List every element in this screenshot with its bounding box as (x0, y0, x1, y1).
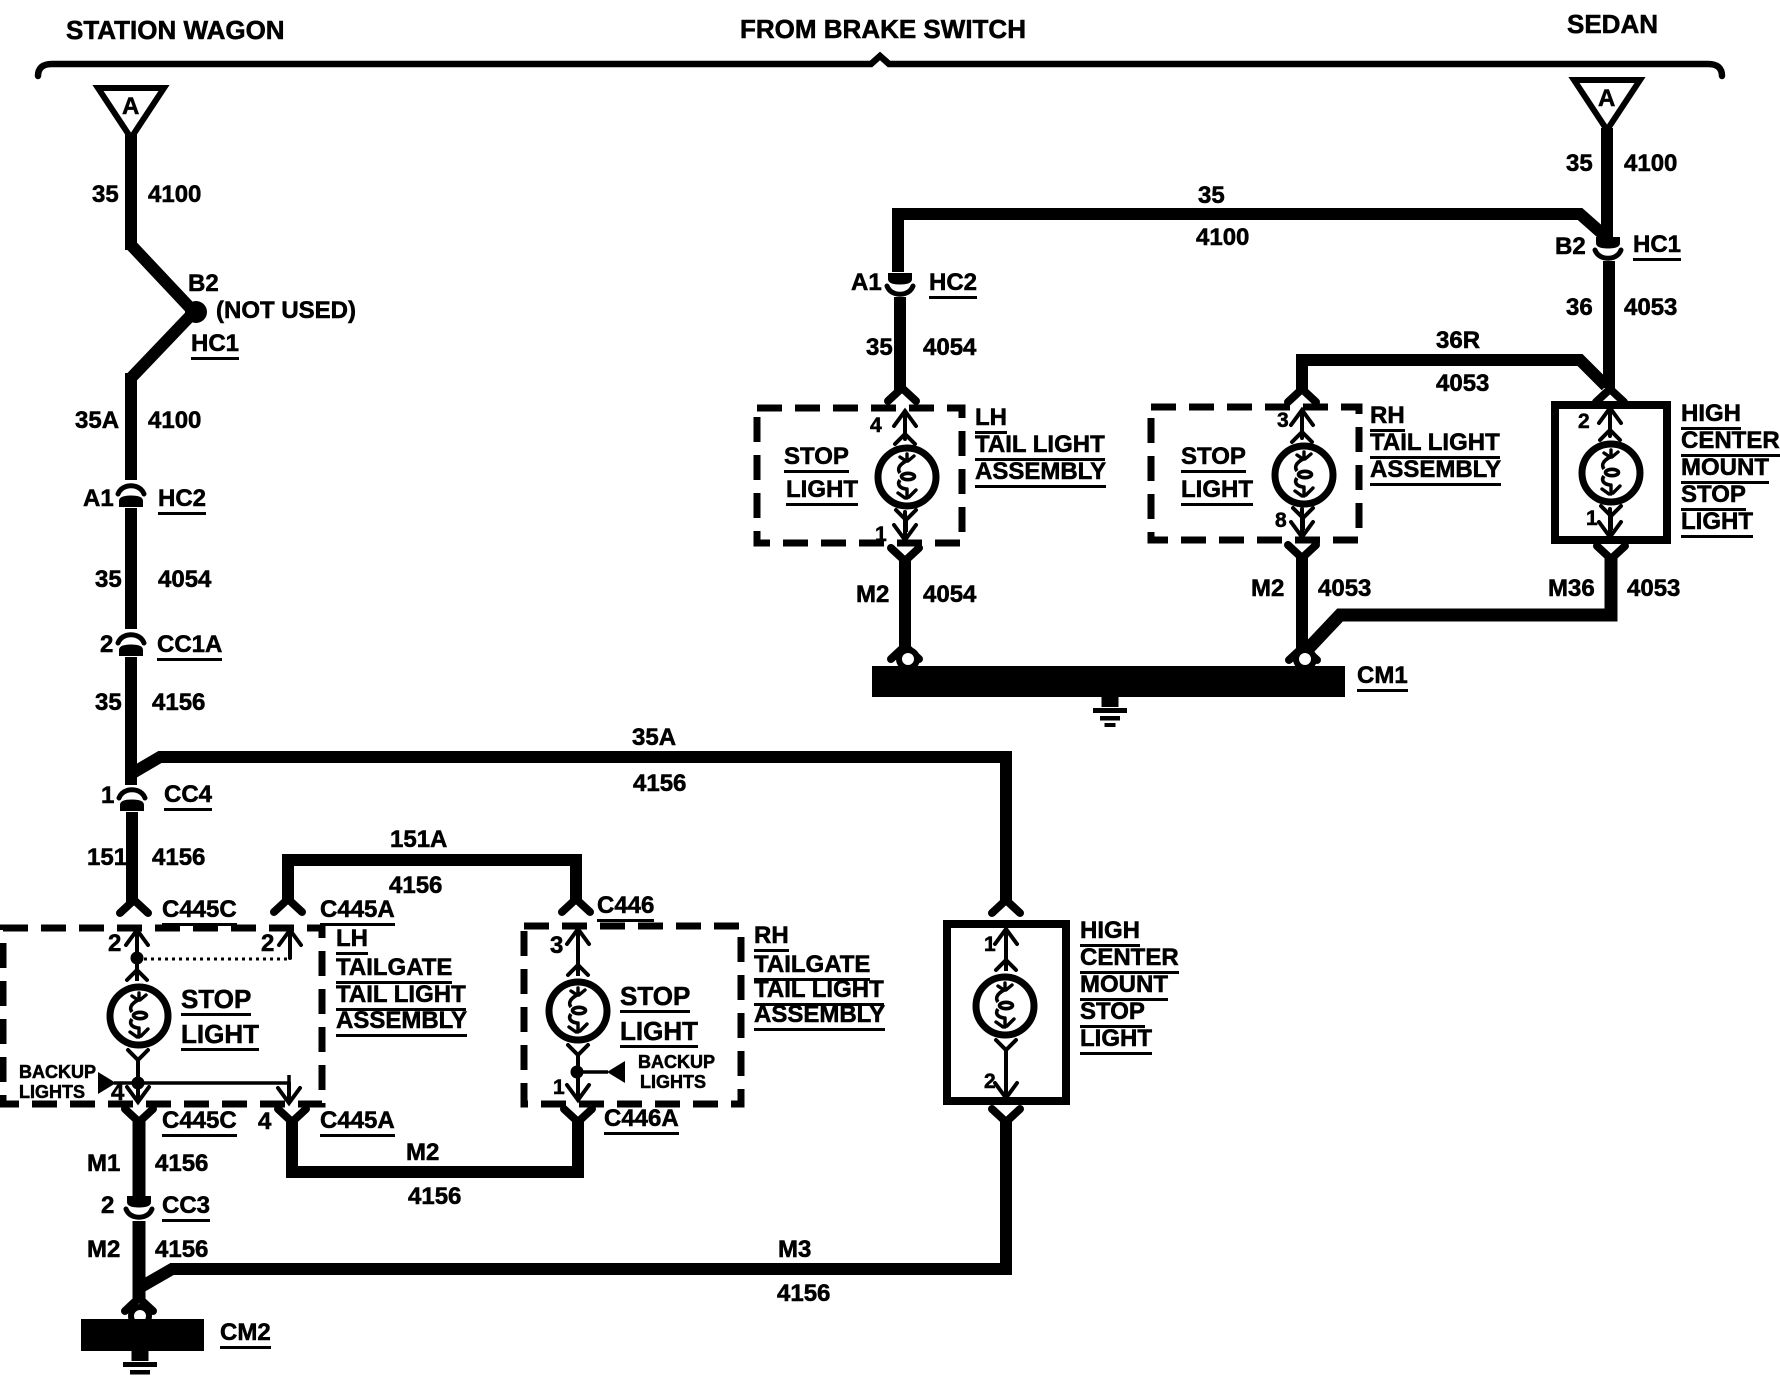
label C446A (604, 1107, 679, 1135)
label M1 (87, 1152, 120, 1176)
label 4156 at 151A (389, 874, 442, 898)
wire 151 4156 (126, 812, 138, 902)
label 4156 left (152, 691, 205, 715)
label 4053 ground (1318, 577, 1371, 601)
label BACKUP RH (638, 1053, 715, 1071)
label 4156 branch (633, 772, 686, 796)
label M2 left (87, 1238, 120, 1262)
label 4156 tailgate jumper (408, 1185, 461, 1209)
backup lights branch wire LH (114, 1075, 289, 1083)
label A wagon triangle (122, 95, 139, 119)
backup lights arrow LH (98, 1072, 116, 1094)
label HC2 left (158, 487, 206, 515)
wire M2 4156 to ground (125, 1221, 153, 1311)
wire 35 4054 left (125, 508, 137, 629)
label pin 2 left LH tailgate (108, 932, 121, 956)
pin 1 high center sedan (1599, 509, 1621, 537)
label CC4 (164, 783, 212, 811)
label RH TAIL LIGHT line2 (1370, 431, 1500, 459)
RH tailgate tail light assembly box (524, 926, 741, 1104)
label 36R (1436, 329, 1480, 353)
label C445A top (320, 898, 395, 926)
wire M2 4156 tailgate jumper (278, 1109, 592, 1172)
ground bump CM1 left (899, 650, 917, 668)
label pin 1 RH tailgate (553, 1077, 565, 1098)
ground bar CM2 (81, 1319, 204, 1351)
label pin 2 high center sedan (1578, 411, 1590, 432)
label 35 wagon feed (92, 183, 119, 207)
label pin 4 LH tail (870, 415, 882, 436)
label 4156 M3 (777, 1282, 830, 1306)
wire M2 4054 (891, 548, 919, 659)
label 35 sedan (1566, 152, 1593, 176)
label HIGH wagon (1080, 919, 1140, 947)
stop light bulb high center wagon (976, 957, 1034, 1070)
label 4053 sedan (1624, 296, 1677, 320)
label MOUNT sedan (1681, 456, 1769, 484)
pin 1 high center wagon (995, 929, 1017, 957)
wire 36 4053 (1603, 261, 1615, 388)
sedan wire end at high center mount (1596, 389, 1624, 402)
label M2 tailgate jumper (406, 1141, 439, 1165)
RH tail light assembly box (1151, 407, 1359, 540)
pin 2 high center sedan (1599, 408, 1621, 436)
stop light bulb RH tail (1275, 432, 1333, 530)
label pin 3 RH tail (1277, 410, 1289, 431)
pin 1 C446A (567, 1072, 589, 1100)
label TAIL LIGHT line3 (336, 983, 466, 1011)
splice node pin2 LH tailgate (131, 952, 144, 965)
label RH ASSEMBLY line3 (1370, 458, 1501, 486)
label pin 3 RH tailgate (550, 934, 563, 958)
wire 151A 4156 (274, 860, 590, 912)
label pin 2 high center wagon (984, 1071, 996, 1092)
wire M2 4053 (1288, 545, 1317, 660)
wire M1 4156 (125, 1109, 153, 1197)
label 4100 crossover (1196, 226, 1249, 250)
label LIGHT RH tail (1181, 478, 1253, 506)
label 151 (87, 846, 127, 870)
connector C445C wire end (120, 900, 148, 913)
splice to backup lights RH (571, 1066, 584, 1079)
label LIGHTS RH (640, 1073, 706, 1091)
wire 35 4100 crossover to sedan (898, 214, 1606, 272)
connector CC1A (118, 635, 144, 656)
label STOP wagon (1080, 1000, 1145, 1028)
stop light bulb RH tailgate (549, 957, 607, 1072)
label CC1A (157, 633, 222, 661)
label 35A branch (632, 726, 676, 750)
label STOP LH tailgate (181, 986, 251, 1016)
label C445C bottom (162, 1109, 237, 1137)
wire 36R 4053 (1288, 360, 1606, 402)
label LH tailgate line1 (336, 927, 368, 955)
label 4100 sedan (1624, 152, 1677, 176)
ground symbol CM2 (123, 1351, 157, 1376)
label C445A bottom (320, 1109, 395, 1137)
label TAILGATE line2 (336, 956, 452, 984)
pin 2 C445C top (126, 930, 148, 958)
pin 3 RH tail light (1291, 410, 1313, 438)
label M2 4053 (1251, 577, 1284, 601)
label 1 CC4 pin (101, 784, 114, 808)
label 35A left (75, 409, 119, 433)
pin 3 C446 (567, 929, 589, 957)
label pin 1 LH tail (875, 524, 887, 545)
label 4054 ground (923, 583, 976, 607)
label pin 2 right LH tailgate (261, 932, 274, 956)
label 4100 wagon feed (148, 183, 201, 207)
connector CC4 (119, 790, 145, 811)
label LIGHT LH tail (786, 478, 858, 506)
title SEDAN (1567, 11, 1658, 37)
wire end at high center mount wagon (992, 900, 1020, 913)
label B2 sedan (1555, 235, 1586, 259)
label C445C top (162, 898, 237, 926)
label LH TAIL LIGHT line2 (975, 433, 1105, 461)
label 35 at 4054 (866, 336, 893, 360)
label 4054 right (923, 336, 976, 360)
wire zigzag B2 to HC1 (131, 245, 194, 378)
label STOP RH tailgate (620, 983, 690, 1013)
label BACKUP LH (19, 1063, 96, 1081)
connector HC1 sedan (1595, 237, 1621, 258)
label LH line1 (975, 406, 1007, 434)
label pin 1 high center wagon (984, 934, 996, 955)
label 2 CC3 pin (101, 1194, 114, 1218)
splice B2 not used (185, 301, 207, 323)
label CM2 (220, 1321, 271, 1349)
title FROM BRAKE SWITCH (740, 16, 1026, 42)
high center mount stop light box wagon (947, 924, 1066, 1101)
stop light bulb LH tailgate (110, 958, 168, 1083)
wire 35 4100 station wagon (125, 134, 137, 250)
label 151A (390, 828, 447, 852)
label HC2 sedan side (929, 271, 977, 299)
label 35 crossover (1198, 184, 1225, 208)
label CM1 (1357, 664, 1408, 692)
splice to backup lights LH (132, 1077, 145, 1090)
label pin 1 high center sedan (1586, 508, 1598, 529)
label A sedan triangle (1598, 87, 1615, 111)
label pin 4 C445A bottom (258, 1110, 271, 1134)
pin 2 C445A top (279, 929, 301, 959)
backup lights branch wire RH (577, 1070, 608, 1074)
LH tail light assembly box (757, 408, 962, 543)
stop light bulb high center sedan (1582, 430, 1640, 530)
label M36 (1548, 577, 1595, 601)
stop light bulb LH tail (878, 434, 936, 532)
label CC3 (162, 1194, 210, 1222)
ground bump CM2 (131, 1307, 149, 1325)
high center mount stop light box sedan (1555, 405, 1667, 540)
connector HC2 sedan side (887, 273, 913, 294)
label 4156 M2 (155, 1238, 208, 1262)
backup lights arrow RH (607, 1061, 625, 1083)
label pin 8 RH tail (1275, 510, 1287, 531)
label LIGHT RH tailgate (620, 1018, 698, 1048)
wire 35A 4100 (125, 373, 137, 480)
label 4156 at 151 (152, 846, 205, 870)
label STOP LH tail (784, 445, 849, 473)
label RH line1 (1370, 404, 1405, 432)
label RH TAIL LIGHT line3 (754, 978, 884, 1006)
label A1 left (83, 487, 114, 511)
label RH tailgate line1 (754, 924, 789, 952)
label NOT USED (216, 299, 356, 323)
brace from brake switch (38, 56, 1722, 76)
label RH ASSEMBLY line4 (754, 1003, 885, 1031)
label pin 4 LH tailgate (111, 1081, 124, 1105)
label STOP sedan (1681, 483, 1746, 511)
connector triangle A station wagon (98, 88, 164, 138)
wire M36 4053 (1306, 546, 1625, 651)
label LIGHT LH tailgate (181, 1021, 259, 1051)
label CENTER wagon (1080, 946, 1179, 974)
connector CC3 (126, 1196, 152, 1217)
label HC1 (191, 332, 239, 360)
pin 1 LH tail light (894, 512, 916, 540)
LH tailgate tail light assembly box (3, 928, 322, 1104)
label M2 4054 (856, 583, 889, 607)
label M3 (778, 1238, 811, 1262)
label RH TAILGATE line2 (754, 953, 870, 981)
wire 35 4100 sedan (1601, 128, 1613, 238)
label 36 sedan (1566, 296, 1593, 320)
label 4100 left second (148, 409, 201, 433)
label 4054 left (158, 568, 211, 592)
wire M3 4156 (139, 1109, 1020, 1288)
label LH ASSEMBLY line3 (975, 460, 1106, 488)
label CENTER sedan (1681, 429, 1780, 457)
label 4053 M36 (1627, 577, 1680, 601)
connector HC2 station wagon (118, 486, 144, 507)
connector triangle A sedan (1574, 80, 1640, 130)
jumper wire pin2 to pin2 (137, 958, 290, 961)
ground bar CM1 (872, 666, 1345, 697)
label STOP RH tail (1181, 445, 1246, 473)
wire end at LH tail light (888, 388, 916, 401)
wire 35 4156 with 35A branch (131, 657, 1006, 902)
label LIGHT wagon (1080, 1027, 1152, 1055)
pin 2 high center wagon (995, 1070, 1017, 1098)
label LIGHTS LH (19, 1083, 85, 1101)
label 35 fourth (95, 691, 122, 715)
label A1 sedan side (851, 271, 882, 295)
label 4053 36R (1436, 372, 1489, 396)
label LIGHT sedan (1681, 510, 1753, 538)
pin C445A bottom (278, 1083, 300, 1103)
label HIGH sedan (1681, 402, 1741, 430)
label 35 third (95, 568, 122, 592)
wire 35 4054 right (894, 297, 906, 390)
label MOUNT wagon (1080, 973, 1168, 1001)
title STATION WAGON (66, 17, 285, 43)
label HC1 sedan (1633, 233, 1681, 261)
label ASSEMBLY line4 (336, 1009, 467, 1037)
label 2 CC1A pin (100, 633, 113, 657)
ground symbol CM1 (1093, 697, 1127, 727)
pin 4 C445C bottom (127, 1074, 149, 1102)
label 4156 M1 (155, 1152, 208, 1176)
pin 8 RH tail light (1291, 509, 1313, 537)
label B2 (188, 272, 219, 296)
label C446 top (597, 894, 654, 922)
pin 4 LH tail light (894, 411, 916, 439)
ground bump CM1 right (1296, 650, 1314, 668)
